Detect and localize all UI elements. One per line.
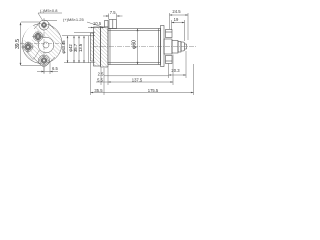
bolt hole left [23, 42, 32, 51]
extension lines [90, 62, 92, 95]
svg-text:175.5: 175.5 [148, 88, 159, 93]
bottom lobe [39, 55, 50, 66]
dim 2.5 [104, 75, 169, 77]
bolt hole top [40, 21, 47, 28]
top lobe [39, 20, 49, 30]
top bolt head [166, 30, 173, 38]
svg-text:137.5: 137.5 [132, 77, 143, 82]
dim 7.5 (stud) [103, 14, 123, 20]
bolt hole bottom [40, 56, 48, 64]
svg-text:(+)M8×1.25: (+)M8×1.25 [63, 17, 84, 22]
centerlines end view [20, 18, 64, 74]
dim 5.5 / 137.5 line [96, 81, 173, 83]
dim dia 60 inside body [137, 29, 139, 65]
svg-text:φ60: φ60 [132, 40, 138, 49]
inner housing V lines [26, 50, 40, 60]
svg-text:φ63.45: φ63.45 [61, 40, 66, 54]
svg-text:6.5: 6.5 [52, 66, 58, 71]
terminal stud on top [109, 20, 117, 29]
bearing boss steps [164, 39, 172, 54]
svg-text:39.5: 39.5 [15, 39, 21, 49]
white crescent upper-left [23, 25, 37, 42]
svg-text:19: 19 [174, 17, 179, 22]
svg-text:7.5: 7.5 [110, 10, 116, 15]
svg-text:35.5: 35.5 [94, 88, 103, 93]
outer flange circle [22, 24, 62, 64]
svg-text:(-)M5×0.8: (-)M5×0.8 [40, 8, 58, 13]
svg-text:20.3: 20.3 [171, 68, 180, 73]
svg-text:10.5: 10.5 [93, 21, 102, 26]
terminal hole upper middle [33, 32, 42, 41]
label (+)M8x1.25 [63, 17, 104, 28]
label (-)M5x0.8 [38, 8, 62, 21]
mounting flange section [91, 20, 187, 68]
end ring [161, 26, 165, 67]
svg-text:13.5: 13.5 [78, 43, 83, 52]
dim 19 [172, 20, 185, 41]
dim 39.5 (left vertical) [20, 21, 57, 66]
main body [108, 29, 161, 65]
dim 35.5 / 175.5 line [91, 92, 194, 94]
dim 6.5 (bottom of end view) [37, 62, 58, 74]
hatched flange face [22, 24, 62, 64]
dim 20.3 bottom right [169, 51, 187, 78]
inner bearing circle [38, 37, 54, 53]
side view centerline [93, 46, 196, 48]
svg-text:2.5: 2.5 [98, 71, 104, 76]
bottom bolt head [166, 56, 173, 64]
dim 24.5 top right [170, 13, 189, 40]
svg-text:5.5: 5.5 [97, 78, 103, 83]
svg-text:24.5: 24.5 [172, 9, 181, 14]
